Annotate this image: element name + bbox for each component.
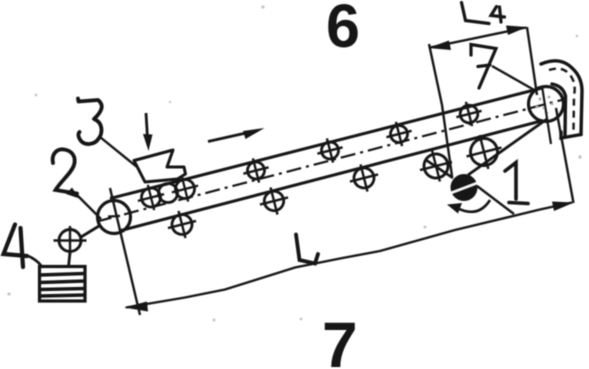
- head drum (pos 7): [529, 87, 564, 122]
- label 1: [505, 163, 528, 204]
- leader 1: [477, 186, 514, 214]
- label 3: [78, 99, 102, 145]
- dimension L text: [296, 235, 318, 264]
- dimension L4 text: [462, 3, 505, 24]
- leader 7: [492, 66, 536, 91]
- dimension L right extension: [556, 108, 574, 203]
- svg-text:7: 7: [322, 309, 358, 369]
- leader 3: [100, 137, 137, 167]
- impact idler b under hopper: [159, 184, 178, 203]
- belt wrap line drive drum to head drum: [468, 119, 547, 175]
- belt travel direction arrow: [208, 133, 246, 142]
- dimension L4 right arrowhead: [506, 26, 527, 36]
- deflector roller right: [462, 131, 506, 174]
- belt wrap line to drive drum: [426, 160, 453, 178]
- dimension L left extension: [110, 188, 140, 315]
- dimension L line: [126, 203, 572, 308]
- carrying idler 2: [314, 135, 345, 166]
- carrying idler 4: [453, 99, 484, 130]
- rotation arrow under drive drum: [456, 200, 490, 212]
- dimension L right arrowhead: [552, 202, 574, 212]
- belt top line: [110, 88, 542, 199]
- belt bottom line: [119, 121, 543, 232]
- line tail drum to take-up pulley: [81, 226, 99, 237]
- return idler 1: [164, 207, 199, 241]
- dimension L4 left extension: [429, 44, 452, 176]
- leader 4: [27, 256, 42, 267]
- dimension L4 left arrowhead: [428, 41, 451, 51]
- impact idler c under hopper: [169, 173, 202, 205]
- feed hopper (pos 3): [134, 150, 186, 182]
- drive drum (pos 1): [451, 174, 478, 201]
- hanger line: [69, 252, 71, 267]
- take-up pulley: [54, 226, 87, 255]
- feed arrow into hopper: [146, 113, 148, 138]
- carrying idler 3: [383, 119, 414, 150]
- discharge chute: [541, 61, 582, 135]
- deflector roller left: [416, 146, 456, 185]
- leader 2 with arrow: [76, 194, 101, 219]
- conveyor centerline (dash-dot axis): [97, 99, 566, 222]
- label 4: [4, 225, 28, 268]
- return idler 3: [346, 161, 381, 195]
- counterweight (pos 4): [40, 267, 86, 302]
- svg-text:6: 6: [326, 0, 360, 60]
- dimension L4 right extension: [527, 27, 537, 95]
- label 2: [53, 149, 77, 193]
- dimension L left arrowhead: [124, 302, 148, 312]
- carrying idler 1: [240, 155, 271, 186]
- tail drum (pos 2): [98, 201, 131, 234]
- impact idler a under hopper: [135, 182, 168, 214]
- dimension L4 line: [430, 28, 526, 48]
- label 7 (head drum pointer): [471, 45, 496, 89]
- return idler 2: [256, 184, 291, 218]
